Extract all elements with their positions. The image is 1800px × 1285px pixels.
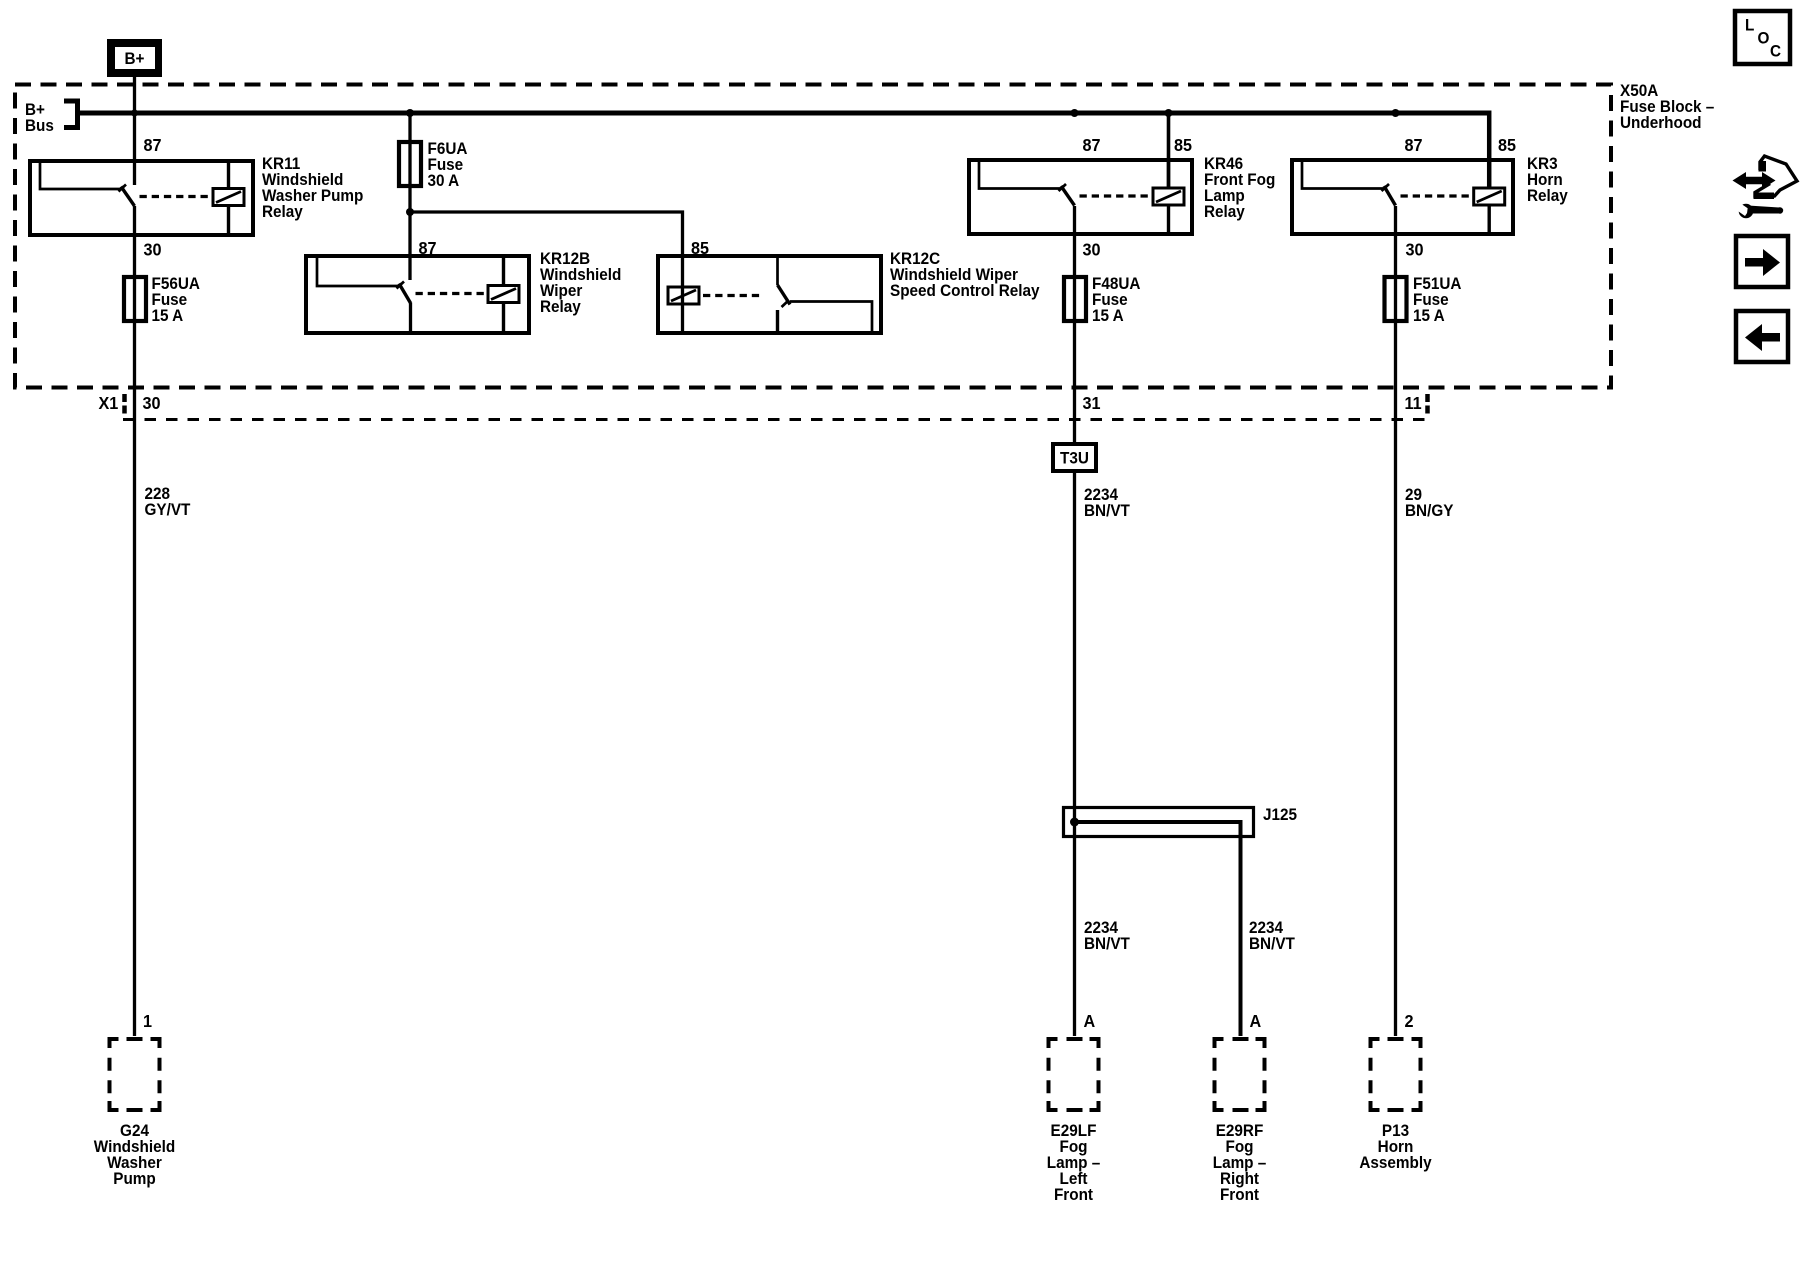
fuse F51UA — [1385, 277, 1407, 321]
svg-text:Assembly: Assembly — [1359, 1153, 1431, 1172]
label F56UA Fuse 15 A — [152, 274, 201, 325]
svg-text:85: 85 — [691, 238, 709, 258]
label circuit 29 BN/GY — [1405, 485, 1454, 520]
wire KR46 switch to E29 fog lamps (terminal 30, circuit 2234) — [1073, 206, 1076, 1036]
wire bus to KR46 coil terminal 85 — [1167, 113, 1171, 190]
pin 30 KR11 — [144, 240, 162, 260]
svg-text:Relay: Relay — [262, 202, 303, 221]
pin 1 G24 — [143, 1011, 152, 1031]
svg-text:30: 30 — [143, 393, 161, 413]
relay KR11 Windshield Washer Pump Relay — [30, 161, 253, 235]
svg-text:1: 1 — [143, 1011, 152, 1031]
label KR46 Front Fog Lamp Relay — [1204, 154, 1275, 221]
wire junction down to KR12B terminal 87 — [408, 212, 412, 333]
svg-text:Front: Front — [1220, 1185, 1260, 1204]
svg-text:BN/VT: BN/VT — [1084, 934, 1130, 953]
pin 85 KR3 — [1498, 135, 1516, 155]
splice pack T3U — [1053, 444, 1096, 471]
svg-text:15 A: 15 A — [152, 306, 184, 325]
junction F6UA output T — [406, 208, 414, 216]
svg-text:C: C — [1770, 42, 1781, 61]
svg-text:Speed Control Relay: Speed Control Relay — [890, 281, 1039, 300]
pin 85 KR12C — [691, 238, 709, 258]
component G24 Windshield Washer Pump dashed box — [108, 1037, 162, 1112]
svg-text:85: 85 — [1498, 135, 1516, 155]
component E29RF Fog Lamp Right Front dashed box — [1213, 1037, 1267, 1112]
svg-text:GY/VT: GY/VT — [145, 500, 191, 519]
svg-text:87: 87 — [1083, 135, 1101, 155]
label G24 Windshield Washer Pump — [94, 1121, 175, 1188]
svg-text:30: 30 — [1406, 240, 1424, 260]
junction J125 splice — [1070, 818, 1079, 827]
label KR12C Windshield Wiper Speed Control Relay — [890, 249, 1039, 300]
relay KR3 Horn Relay — [1292, 160, 1513, 234]
icon forward arrow box — [1736, 236, 1788, 287]
label X1 — [99, 393, 119, 413]
svg-text:15 A: 15 A — [1092, 306, 1124, 325]
wire J125 branch to E29RF — [1075, 822, 1241, 1036]
label P13 Horn Assembly — [1359, 1121, 1431, 1172]
svg-text:31: 31 — [1083, 393, 1101, 413]
relay KR12B Windshield Wiper Relay — [306, 256, 529, 333]
icon power distribution (double arrow, hollow arrow, wrench) — [1733, 156, 1798, 218]
pin 85 KR46 — [1174, 135, 1192, 155]
pin 30 KR46 — [1083, 240, 1101, 260]
junction bus to KR46 terminal 87 — [1071, 109, 1079, 117]
svg-text:Pump: Pump — [113, 1169, 156, 1188]
label circuit 2234 BN/VT right branch — [1249, 918, 1295, 953]
icon back arrow box — [1736, 311, 1788, 362]
connector X1 row dashed line — [123, 418, 1429, 421]
svg-text:T3U: T3U — [1060, 449, 1089, 468]
component E29LF Fog Lamp Left Front dashed box — [1047, 1037, 1101, 1112]
svg-text:Relay: Relay — [1527, 186, 1568, 205]
pin 31 connector X1 — [1083, 393, 1101, 413]
component P13 Horn Assembly dashed box — [1369, 1037, 1423, 1112]
svg-text:BN/GY: BN/GY — [1405, 501, 1454, 520]
pin 87 KR11 — [144, 135, 162, 155]
relay KR46 Front Fog Lamp Relay — [969, 160, 1192, 234]
label KR11 Windshield Washer Pump Relay — [262, 154, 363, 221]
fuse F56UA — [124, 277, 146, 321]
label F51UA Fuse 15 A — [1413, 274, 1462, 325]
wire B+ to KR11 terminal 87 — [133, 77, 136, 185]
pin 30 connector X1 — [143, 393, 161, 413]
pin A E29RF — [1250, 1011, 1262, 1031]
wire junction to KR12C terminal 85 (jog) — [410, 212, 683, 333]
label KR3 Horn Relay — [1527, 154, 1568, 205]
label J125 — [1263, 805, 1297, 824]
pin 30 KR3 — [1406, 240, 1424, 260]
node B+ Bus bracket and label — [25, 100, 78, 135]
power symbol B+ battery feed — [107, 39, 162, 77]
pin A E29LF — [1084, 1011, 1096, 1031]
svg-text:87: 87 — [419, 238, 437, 258]
label E29LF Fog Lamp Left Front — [1047, 1121, 1101, 1204]
svg-text:J125: J125 — [1263, 805, 1297, 824]
label KR12B Windshield Wiper Relay — [540, 249, 621, 316]
wire KR3 switch to P13 horn (terminal 30, circuit 29) — [1394, 206, 1397, 1036]
svg-text:11: 11 — [1405, 393, 1423, 413]
wire KR11 switch to G24 (terminal 30, circuit 228) — [133, 206, 136, 1036]
connector J125 box — [1064, 808, 1254, 837]
svg-text:X1: X1 — [99, 393, 119, 413]
svg-text:Underhood: Underhood — [1620, 113, 1702, 132]
label X50A Fuse Block - Underhood — [1620, 81, 1714, 132]
junction B+ wire on B+ bus — [131, 109, 138, 116]
connector X1 bracket — [122, 394, 127, 414]
fuse F6UA — [399, 142, 421, 186]
fuse block X50A dashed boundary — [15, 85, 1611, 388]
pin 11 connector X1 — [1405, 393, 1423, 413]
svg-text:O: O — [1758, 29, 1770, 48]
svg-text:A: A — [1084, 1011, 1096, 1031]
svg-text:87: 87 — [1405, 135, 1423, 155]
svg-text:85: 85 — [1174, 135, 1192, 155]
svg-text:30: 30 — [1083, 240, 1101, 260]
pin 87 KR12B — [419, 238, 437, 258]
junction bus to KR3 terminal 87 — [1392, 109, 1400, 117]
svg-text:Front: Front — [1054, 1185, 1094, 1204]
label E29RF Fog Lamp Right Front — [1213, 1121, 1267, 1204]
pin 87 KR46 — [1083, 135, 1101, 155]
icon LOC reference box — [1735, 11, 1790, 64]
svg-text:L: L — [1745, 16, 1754, 35]
fuse F48UA — [1064, 277, 1086, 321]
junction bus to KR46 coil terminal 85 — [1165, 109, 1173, 117]
svg-text:B+: B+ — [125, 49, 145, 68]
svg-text:Bus: Bus — [25, 116, 54, 135]
label circuit 2234 BN/VT — [1084, 485, 1130, 520]
junction bus to F6UA — [406, 109, 414, 117]
wire B+ bus — [77, 111, 1489, 116]
svg-text:Relay: Relay — [1204, 202, 1245, 221]
svg-text:Relay: Relay — [540, 297, 581, 316]
label circuit 228 GY/VT — [145, 484, 191, 519]
wire bus drop to KR3 coil terminal 85 — [1487, 111, 1492, 189]
svg-text:15 A: 15 A — [1413, 306, 1445, 325]
svg-text:30 A: 30 A — [428, 171, 460, 190]
svg-text:87: 87 — [144, 135, 162, 155]
svg-text:BN/VT: BN/VT — [1084, 501, 1130, 520]
label F6UA Fuse 30 A — [428, 139, 468, 190]
svg-text:BN/VT: BN/VT — [1249, 934, 1295, 953]
pin 87 KR3 — [1405, 135, 1423, 155]
label F48UA Fuse 15 A — [1092, 274, 1141, 325]
svg-text:30: 30 — [144, 240, 162, 260]
wire bus through fuse F6UA to junction — [408, 113, 411, 212]
connector X1 right bracket — [1425, 394, 1430, 414]
svg-text:2: 2 — [1405, 1011, 1414, 1031]
label circuit 2234 BN/VT left branch — [1084, 918, 1130, 953]
pin 2 P13 — [1405, 1011, 1414, 1031]
relay KR12C Windshield Wiper Speed Control Relay — [658, 256, 881, 333]
svg-text:A: A — [1250, 1011, 1262, 1031]
